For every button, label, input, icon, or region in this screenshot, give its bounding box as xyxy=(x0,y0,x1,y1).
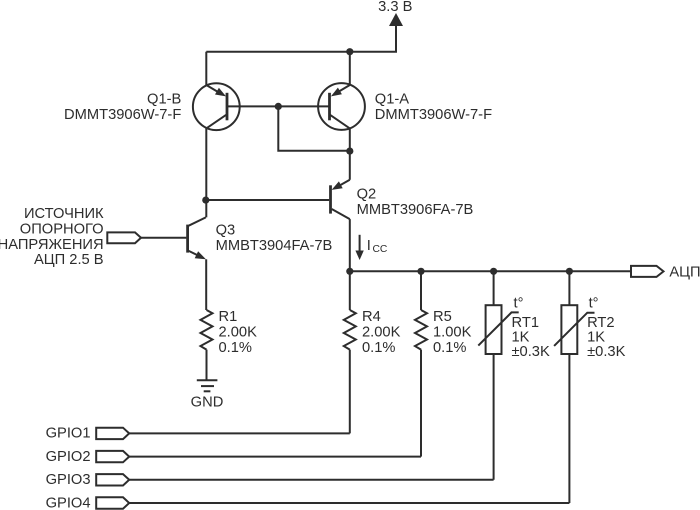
svg-text:Q1-B: Q1-B xyxy=(147,92,181,108)
svg-text:R5: R5 xyxy=(433,309,452,325)
svg-text:CC: CC xyxy=(373,244,388,255)
svg-text:GPIO4: GPIO4 xyxy=(46,495,91,510)
svg-text:GPIO3: GPIO3 xyxy=(46,472,91,488)
svg-text:1.00K: 1.00K xyxy=(433,324,472,340)
svg-text:Q3: Q3 xyxy=(216,223,236,239)
svg-text:3.3 В: 3.3 В xyxy=(378,0,412,15)
svg-text:I: I xyxy=(367,238,371,254)
svg-text:НАПРЯЖЕНИЯ: НАПРЯЖЕНИЯ xyxy=(0,237,104,253)
svg-text:Q2: Q2 xyxy=(357,187,377,203)
svg-text:±0.3K: ±0.3K xyxy=(512,344,550,360)
svg-text:ОПОРНОГО: ОПОРНОГО xyxy=(20,221,104,237)
svg-text:2.00K: 2.00K xyxy=(362,324,401,340)
svg-text:MMBT3904FA-7B: MMBT3904FA-7B xyxy=(216,238,333,254)
svg-text:АЦП: АЦП xyxy=(669,264,700,280)
svg-text:±0.3K: ±0.3K xyxy=(587,344,625,360)
svg-text:0.1%: 0.1% xyxy=(433,340,466,356)
svg-text:ИСТОЧНИК: ИСТОЧНИК xyxy=(24,206,104,222)
svg-text:0.1%: 0.1% xyxy=(362,340,395,356)
svg-text:GPIO2: GPIO2 xyxy=(46,449,91,465)
svg-text:R1: R1 xyxy=(219,309,238,325)
svg-text:2.00K: 2.00K xyxy=(219,324,258,340)
svg-text:R4: R4 xyxy=(362,309,381,325)
svg-text:MMBT3906FA-7B: MMBT3906FA-7B xyxy=(357,202,474,218)
svg-text:Q1-A: Q1-A xyxy=(375,92,409,108)
svg-text:0.1%: 0.1% xyxy=(219,340,252,356)
svg-text:t°: t° xyxy=(589,296,599,312)
svg-text:DMMT3906W-7-F: DMMT3906W-7-F xyxy=(375,107,492,123)
svg-text:GPIO1: GPIO1 xyxy=(46,426,91,442)
svg-text:DMMT3906W-7-F: DMMT3906W-7-F xyxy=(64,107,181,123)
svg-text:t°: t° xyxy=(514,296,524,312)
svg-text:GND: GND xyxy=(191,395,224,411)
svg-text:АЦП 2.5 В: АЦП 2.5 В xyxy=(34,252,104,268)
